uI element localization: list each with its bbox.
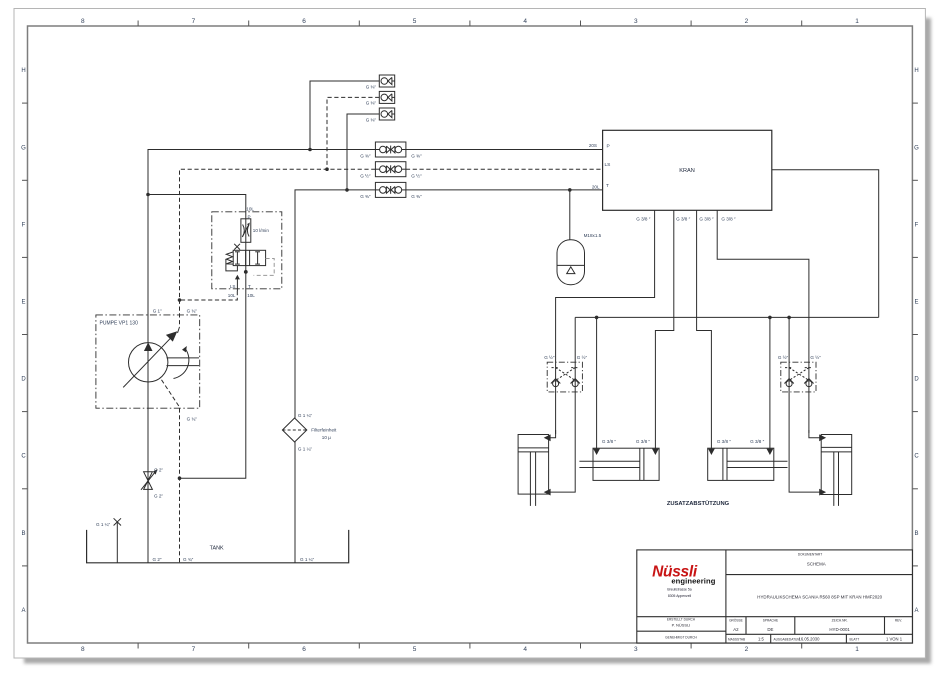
svg-text:3: 3 bbox=[634, 18, 638, 25]
wire left check to cylinder top port bbox=[549, 430, 556, 438]
svg-text:4: 4 bbox=[523, 646, 527, 653]
svg-text:G 1 ¼″: G 1 ¼″ bbox=[96, 522, 111, 527]
svg-text:TANK: TANK bbox=[210, 545, 224, 551]
svg-text:6: 6 bbox=[302, 646, 306, 653]
frame column numbers top bbox=[81, 18, 859, 25]
wire KRAN port4 to right check block bbox=[717, 210, 809, 433]
svg-text:DE: DE bbox=[767, 627, 773, 632]
svg-text:6: 6 bbox=[302, 18, 306, 25]
svg-text:8: 8 bbox=[81, 646, 85, 653]
wire right check left circle drop bbox=[789, 317, 821, 492]
wire T coupling row3 to KRAN T bbox=[406, 189, 603, 191]
svg-text:G ⅜″: G ⅜″ bbox=[411, 154, 422, 159]
svg-text:REV.: REV. bbox=[895, 619, 902, 623]
svg-text:5: 5 bbox=[413, 646, 417, 653]
wire P main vertical x148 bbox=[148, 150, 375, 563]
pump rotation arc bbox=[174, 349, 189, 379]
valve spring bbox=[226, 252, 233, 264]
check valve block B1 enclosure bbox=[547, 362, 582, 392]
svg-text:P. NÜSSLI: P. NÜSSLI bbox=[672, 623, 691, 628]
svg-text:4: 4 bbox=[523, 18, 527, 25]
wire KRAN port1 to left check block bbox=[556, 210, 655, 434]
svg-text:F: F bbox=[22, 222, 26, 228]
svg-text:G ¾″: G ¾″ bbox=[187, 309, 198, 314]
svg-text:BLATT: BLATT bbox=[850, 638, 860, 642]
svg-text:MASSSTAB: MASSSTAB bbox=[728, 638, 745, 642]
svg-text:G ⅜″: G ⅜″ bbox=[360, 194, 371, 199]
frame row ticks left bbox=[22, 103, 28, 566]
wire mid cyl left port drop bbox=[596, 317, 598, 449]
svg-text:10L: 10L bbox=[246, 206, 254, 211]
frame row letters left bbox=[21, 68, 26, 614]
quick coupling pair QC6 bbox=[375, 182, 406, 197]
svg-text:ZEICH.NR.: ZEICH.NR. bbox=[832, 619, 848, 623]
wire valve block T return bbox=[180, 266, 246, 479]
svg-text:G 3/8 ″: G 3/8 ″ bbox=[717, 439, 732, 444]
svg-text:A: A bbox=[914, 608, 918, 614]
valve LS port arrow bbox=[236, 276, 238, 291]
svg-text:SCHEMA: SCHEMA bbox=[807, 562, 826, 567]
svg-text:G 3/8 ″: G 3/8 ″ bbox=[750, 439, 765, 444]
svg-text:2: 2 bbox=[745, 18, 749, 25]
svg-text:G 3/8 ″: G 3/8 ″ bbox=[636, 439, 651, 444]
svg-text:GENEHMIGT DURCH: GENEHMIGT DURCH bbox=[665, 635, 697, 639]
cylinder Z1 left vertical bbox=[518, 434, 551, 506]
wire common pressure line bbox=[575, 316, 879, 318]
svg-text:G 2″: G 2″ bbox=[153, 557, 162, 562]
svg-text:H: H bbox=[21, 68, 25, 74]
svg-text:7: 7 bbox=[192, 18, 196, 25]
frame column ticks bottom bbox=[138, 643, 802, 649]
svg-text:E: E bbox=[914, 300, 918, 306]
wire accumulator drop bbox=[569, 190, 571, 240]
wire filter to tank bbox=[294, 442, 296, 563]
accumulator A1 bbox=[557, 240, 585, 285]
wire right mid cyl right port drop bbox=[769, 317, 771, 449]
quick coupling QC1 single bbox=[379, 75, 394, 87]
svg-text:B: B bbox=[21, 531, 25, 537]
svg-text:G ⅜″: G ⅜″ bbox=[366, 84, 377, 89]
valve X vent bbox=[234, 244, 240, 250]
svg-text:G 1 ¼″: G 1 ¼″ bbox=[298, 413, 313, 418]
svg-text:1: 1 bbox=[855, 646, 859, 653]
quick coupling pair QC5 bbox=[375, 162, 406, 177]
svg-text:T: T bbox=[606, 183, 609, 189]
KRAN box U1 bbox=[603, 130, 772, 210]
svg-text:P: P bbox=[607, 144, 610, 150]
svg-text:1:5: 1:5 bbox=[758, 637, 764, 642]
svg-text:G ½″: G ½″ bbox=[810, 354, 821, 360]
valve block dash-dot enclosure bbox=[212, 212, 282, 289]
wire KRAN right side port bbox=[772, 170, 879, 318]
svg-text:G ⅜″: G ⅜″ bbox=[411, 194, 422, 199]
wire KRAN port3 to mid cylinder bbox=[697, 210, 712, 449]
svg-text:A2: A2 bbox=[733, 627, 739, 632]
wire LS into pump control bbox=[178, 327, 180, 333]
wire right check to cylinder top port bbox=[809, 430, 821, 438]
svg-text:LS: LS bbox=[605, 162, 611, 168]
pump variable arrow bbox=[123, 338, 171, 388]
svg-text:G 2″: G 2″ bbox=[154, 493, 163, 498]
svg-text:G ½″: G ½″ bbox=[778, 354, 789, 360]
svg-text:G 1 ¼″: G 1 ¼″ bbox=[298, 446, 313, 451]
svg-text:G 1 ¼″: G 1 ¼″ bbox=[300, 557, 315, 562]
svg-text:G 3/8 ″: G 3/8 ″ bbox=[636, 216, 651, 221]
tank bbox=[87, 530, 349, 563]
svg-text:G 3/8 ″: G 3/8 ″ bbox=[676, 216, 691, 221]
svg-text:B: B bbox=[914, 531, 918, 537]
svg-text:ERSTELLT DURCH: ERSTELLT DURCH bbox=[667, 618, 696, 622]
svg-text:8: 8 bbox=[81, 18, 85, 25]
wire common line to left check right circle bbox=[549, 317, 575, 492]
svg-text:G 3/8 ″: G 3/8 ″ bbox=[602, 439, 617, 444]
svg-text:LS: LS bbox=[230, 284, 236, 289]
svg-text:3: 3 bbox=[634, 646, 638, 653]
svg-text:HYD-0001: HYD-0001 bbox=[829, 627, 850, 632]
flow control valve FC1 bbox=[241, 219, 251, 243]
TITLEBLOCK bbox=[637, 550, 913, 643]
wire LS dashed main bbox=[162, 97, 603, 562]
pump outlet arrow bbox=[144, 342, 153, 351]
pump shaft bbox=[167, 357, 200, 359]
svg-text:G ¾″: G ¾″ bbox=[187, 416, 198, 421]
svg-text:5: 5 bbox=[413, 18, 417, 25]
svg-text:G 3/8 ″: G 3/8 ″ bbox=[699, 216, 714, 221]
svg-text:DOKUMENTART: DOKUMENTART bbox=[798, 553, 822, 557]
capped tank connection X bbox=[116, 522, 118, 563]
svg-text:10 l/min: 10 l/min bbox=[253, 228, 270, 233]
quick coupling pair QC4 bbox=[375, 142, 406, 157]
check valve block B2 valves bbox=[784, 368, 813, 387]
cylinder Z4 right vertical bbox=[819, 434, 852, 506]
svg-text:20L: 20L bbox=[592, 184, 600, 189]
wire KRAN port2 to mid cylinder bbox=[655, 210, 673, 449]
svg-text:G ½″: G ½″ bbox=[577, 354, 588, 360]
svg-text:GRÖSSE: GRÖSSE bbox=[729, 619, 743, 623]
pump P1 circle bbox=[129, 343, 168, 382]
svg-text:Filterfeinheit: Filterfeinheit bbox=[311, 428, 337, 433]
frame column numbers bottom bbox=[81, 646, 859, 653]
svg-text:ZUSATZABSTÜTZUNG: ZUSATZABSTÜTZUNG bbox=[667, 500, 730, 507]
pump P1 dash-dot enclosure bbox=[96, 315, 200, 408]
svg-text:1: 1 bbox=[855, 18, 859, 25]
wire P coupling row1 to KRAN P bbox=[406, 149, 603, 151]
svg-text:P: P bbox=[248, 214, 251, 219]
svg-text:G ½″: G ½″ bbox=[544, 354, 555, 360]
svg-text:G: G bbox=[914, 145, 919, 151]
frame row ticks right bbox=[912, 103, 918, 566]
check valve block B1 valves bbox=[551, 368, 580, 387]
svg-text:M18x1.5: M18x1.5 bbox=[584, 233, 602, 238]
svg-text:2: 2 bbox=[745, 646, 749, 653]
cylinder Z3 right middle horizontal bbox=[708, 448, 788, 480]
valve pilot gray path bbox=[254, 259, 275, 276]
svg-text:E: E bbox=[21, 300, 25, 306]
svg-text:10 µ: 10 µ bbox=[322, 435, 331, 440]
svg-text:SPRACHE: SPRACHE bbox=[763, 619, 778, 623]
svg-text:7: 7 bbox=[192, 646, 196, 653]
svg-text:G ⅜″: G ⅜″ bbox=[360, 154, 371, 159]
svg-text:G ⅜″: G ⅜″ bbox=[366, 101, 377, 106]
svg-text:F: F bbox=[915, 222, 919, 228]
wire P branch to valve block bbox=[148, 195, 246, 266]
svg-text:G 2″: G 2″ bbox=[154, 468, 163, 473]
svg-text:engineering: engineering bbox=[671, 577, 715, 586]
wire single coupling 1 drop bbox=[310, 81, 379, 150]
check valve block B2 enclosure bbox=[781, 362, 816, 392]
svg-text:HYDRAULIKSCHEMA SCANIA R560 8S: HYDRAULIKSCHEMA SCANIA R560 8SP MIT KRAN… bbox=[757, 594, 882, 599]
svg-text:C: C bbox=[914, 454, 919, 460]
svg-text:T: T bbox=[248, 284, 251, 289]
svg-text:G 1″: G 1″ bbox=[153, 309, 162, 314]
svg-text:8305 Appenzell: 8305 Appenzell bbox=[668, 594, 691, 598]
svg-text:G ¾″: G ¾″ bbox=[183, 557, 194, 562]
svg-text:G ½″: G ½″ bbox=[360, 172, 371, 178]
wire single coupling 3 drop bbox=[347, 114, 379, 190]
svg-text:G ½″: G ½″ bbox=[411, 172, 422, 178]
cylinder Z2 left middle horizontal bbox=[579, 448, 659, 480]
wire pump case drain dashed bbox=[162, 380, 180, 563]
filter F1 bbox=[282, 418, 306, 442]
quick coupling QC2 single bbox=[379, 91, 394, 103]
svg-text:Breulistrasse 5a: Breulistrasse 5a bbox=[667, 588, 691, 592]
svg-text:H: H bbox=[914, 68, 918, 74]
frame column ticks top bbox=[138, 21, 802, 27]
wire single coupling 2 drop dashed bbox=[327, 97, 379, 169]
frame row letters right bbox=[914, 68, 919, 614]
svg-text:D: D bbox=[21, 377, 26, 383]
svg-text:1 VON 1: 1 VON 1 bbox=[886, 637, 903, 642]
svg-text:G 3/8 ″: G 3/8 ″ bbox=[721, 216, 736, 221]
svg-text:KRAN: KRAN bbox=[679, 168, 695, 174]
svg-text:16.05.2030: 16.05.2030 bbox=[799, 637, 821, 642]
svg-text:20S: 20S bbox=[589, 143, 597, 148]
wire LS branch to valve block bbox=[180, 291, 238, 300]
quick coupling QC3 single bbox=[379, 108, 394, 120]
valve drain loop bbox=[226, 259, 238, 271]
wire T line row3 bbox=[295, 190, 375, 418]
svg-text:PUMPE VP1 130: PUMPE VP1 130 bbox=[100, 320, 139, 326]
svg-text:10L: 10L bbox=[247, 293, 255, 298]
svg-text:D: D bbox=[914, 377, 919, 383]
svg-text:10L: 10L bbox=[228, 293, 236, 298]
svg-text:G: G bbox=[21, 145, 26, 151]
pressure compensator valve PC1 bbox=[233, 250, 265, 265]
svg-text:A: A bbox=[21, 608, 25, 614]
svg-text:G ⅜″: G ⅜″ bbox=[366, 117, 377, 122]
ball valve V1 bbox=[141, 469, 158, 490]
svg-text:C: C bbox=[21, 454, 26, 460]
svg-text:AUSGABEDATUM: AUSGABEDATUM bbox=[774, 638, 801, 642]
